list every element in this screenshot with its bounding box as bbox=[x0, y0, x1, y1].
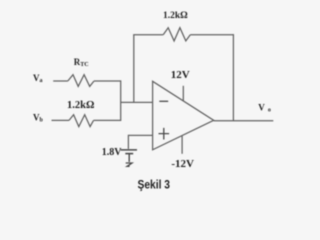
wire positive supply bbox=[182, 86, 184, 101]
resistor Rf 1.2k zigzag bbox=[163, 28, 190, 41]
wire Va to junction bbox=[94, 80, 121, 82]
wire feedback top right segment bbox=[190, 34, 233, 36]
svg-text:1.2kΩ: 1.2kΩ bbox=[163, 11, 188, 21]
svg-text:Şekil 3: Şekil 3 bbox=[138, 178, 171, 192]
resistor RTC zigzag bbox=[68, 75, 94, 87]
svg-text:12V: 12V bbox=[171, 69, 190, 81]
wire battery to ground bbox=[128, 154, 130, 162]
wire Vb input lead bbox=[52, 119, 70, 121]
op-amp U1 triangle bbox=[153, 81, 214, 150]
wire battery drop bbox=[127, 135, 129, 149]
battery V1 long plate bbox=[121, 149, 138, 151]
wire negative supply bbox=[181, 136, 183, 154]
svg-text:1.2kΩ: 1.2kΩ bbox=[67, 100, 94, 111]
wire noninverting input bbox=[128, 134, 152, 136]
resistor R2 1.2k zigzag bbox=[69, 115, 94, 127]
wire Va input lead bbox=[53, 80, 68, 82]
wire feedback right vertical bbox=[232, 34, 234, 121]
wire junction vertical bbox=[120, 80, 122, 121]
plus sign noninverting input bbox=[159, 128, 170, 140]
svg-text:-12V: -12V bbox=[171, 158, 194, 170]
wire Vb to junction bbox=[94, 119, 121, 121]
wire inverting input bbox=[121, 101, 153, 103]
wire output bbox=[214, 120, 274, 122]
ground symbol bbox=[126, 163, 132, 166]
minus sign inverting input bbox=[159, 100, 168, 102]
wire feedback left vertical bbox=[133, 35, 135, 103]
svg-text:1.8V: 1.8V bbox=[102, 147, 123, 158]
wire feedback top left segment bbox=[133, 34, 163, 36]
battery V1 short plate bbox=[125, 153, 133, 155]
